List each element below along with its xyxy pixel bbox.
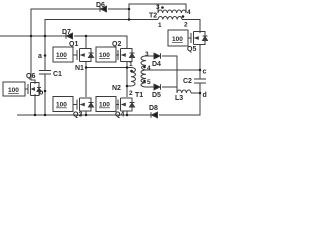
diode D8 (151, 112, 158, 118)
transformer T1 secondary winding (141, 56, 146, 87)
wire D5 out to L3 (162, 87, 177, 93)
wire bottom rail (17, 114, 151, 116)
svg-text:a: a (38, 53, 42, 60)
svg-text:c: c (203, 69, 207, 76)
svg-text:1: 1 (129, 61, 133, 68)
resistor block 100 for Q5 (168, 30, 188, 46)
T2 pin3 polarity dot (161, 6, 164, 9)
svg-text:1: 1 (158, 22, 162, 29)
svg-text:5: 5 (147, 79, 151, 86)
resistor block 100 for Q3 (53, 97, 73, 112)
svg-text:N2: N2 (112, 85, 121, 92)
transformer T1 primary winding (131, 68, 136, 87)
svg-text:3: 3 (156, 4, 160, 11)
svg-text:100: 100 (56, 102, 67, 109)
svg-text:b: b (39, 90, 43, 97)
svg-text:Q2: Q2 (112, 41, 121, 48)
wire Q4 source (126, 112, 128, 116)
wire junction down to y20 (128, 9, 130, 20)
bottom rail dots (34, 114, 37, 117)
wire Q2 source down through N2 to Q4 drain (126, 62, 128, 97)
svg-text:2: 2 (184, 22, 188, 29)
T2 pin2 polarity dot (182, 15, 185, 18)
T1 pin4 polarity dot (143, 66, 146, 69)
transistor Q4 (118, 98, 135, 111)
svg-text:100: 100 (8, 87, 19, 94)
svg-text:L3: L3 (175, 95, 183, 102)
svg-text:4: 4 (187, 9, 191, 16)
wire D4 out down to D5 node (162, 56, 177, 87)
capacitor C2 (194, 79, 206, 83)
transformer T2 bottom winding 1-2 (158, 16, 182, 19)
wire main rail y36 left (0, 35, 66, 37)
diode D5 (154, 84, 161, 90)
resistor block 100 for Q2 (96, 47, 116, 62)
wire C1 branch vertical (44, 36, 46, 70)
resistor block 100 for Q1 (53, 47, 73, 62)
svg-text:N1: N1 (75, 65, 84, 72)
svg-text:T2: T2 (149, 13, 157, 20)
svg-text:C1: C1 (53, 71, 62, 78)
resistor block 100 for Q4 (96, 97, 116, 112)
wire Q5 source to node c (199, 44, 201, 79)
svg-text:100: 100 (172, 36, 183, 43)
wire bottom rail right of D8 (159, 93, 200, 115)
svg-text:Q4: Q4 (115, 112, 124, 119)
transistor Q6 (28, 83, 41, 96)
wire T1 pin1 lead (127, 67, 131, 69)
wire T1 pin3 to D4 (146, 55, 154, 57)
wire C2 to node d (199, 83, 201, 93)
wire T1 pin4 center tap to node c (146, 69, 200, 71)
svg-text:Q3: Q3 (73, 112, 82, 119)
T1 pin5 polarity dot (143, 80, 146, 83)
junction dots (30, 6, 202, 116)
wire D6 to junction (108, 8, 129, 10)
wire Q1 source to N1 to Q3 drain (85, 62, 87, 97)
svg-text:3: 3 (145, 51, 149, 58)
svg-text:D6: D6 (96, 2, 105, 9)
wire second rail y20 (45, 20, 158, 37)
wire T2 pin2 to Q5 drain (182, 20, 200, 34)
node d dot (199, 92, 202, 95)
svg-text:D8: D8 (149, 105, 158, 112)
wire C1 to bottom rail (44, 74, 46, 115)
wire Q6 drain vertical (31, 36, 35, 84)
wire rail D7 to Q2 drain (74, 36, 127, 48)
node b dot (44, 90, 47, 93)
transistor Q1 (77, 49, 94, 62)
wire Q3 source (85, 112, 87, 116)
transistor Q3 (77, 98, 94, 111)
svg-text:Q1: Q1 (69, 41, 78, 48)
diode D6 (100, 6, 107, 12)
node a dot (44, 54, 47, 57)
transistor Q2 (118, 49, 135, 62)
svg-text:100: 100 (56, 52, 67, 59)
svg-text:C2: C2 (183, 78, 192, 85)
svg-text:100: 100 (99, 102, 110, 109)
wire N1 to T1 pin1 junction (86, 67, 127, 69)
diode D7 (66, 33, 73, 39)
wire T1 pin5 to D5 (146, 86, 154, 88)
wire N2 to T1 pin2 lead (127, 85, 131, 87)
resistor block 100 for Q6 (3, 82, 25, 96)
capacitor C1 (39, 71, 51, 75)
transformer T2 top winding 3-4 (158, 4, 186, 13)
T1 pin1 polarity dot (130, 70, 133, 73)
svg-text:Q6: Q6 (26, 73, 35, 80)
wire top rail y9 (31, 9, 100, 36)
wire Q6 source (34, 94, 36, 115)
node N2 dot (126, 85, 129, 88)
svg-text:Q5: Q5 (187, 46, 196, 53)
svg-text:T1: T1 (135, 92, 143, 99)
transistor Q5 (191, 32, 208, 45)
wire clamp top y4 to T2 pin4 (129, 4, 186, 13)
svg-text:100: 100 (99, 52, 110, 59)
svg-text:D5: D5 (152, 92, 161, 99)
node c dot (199, 69, 202, 72)
node N1 dot (85, 66, 88, 69)
svg-text:2: 2 (129, 90, 133, 97)
wire Q1 drain (85, 36, 87, 48)
wire L3 to node d (191, 92, 200, 94)
diode D4 (154, 53, 161, 59)
svg-text:d: d (203, 92, 207, 99)
svg-text:4: 4 (147, 65, 151, 72)
inductor L3 (177, 90, 191, 93)
svg-text:D4: D4 (152, 61, 161, 68)
svg-text:D7: D7 (62, 29, 71, 36)
